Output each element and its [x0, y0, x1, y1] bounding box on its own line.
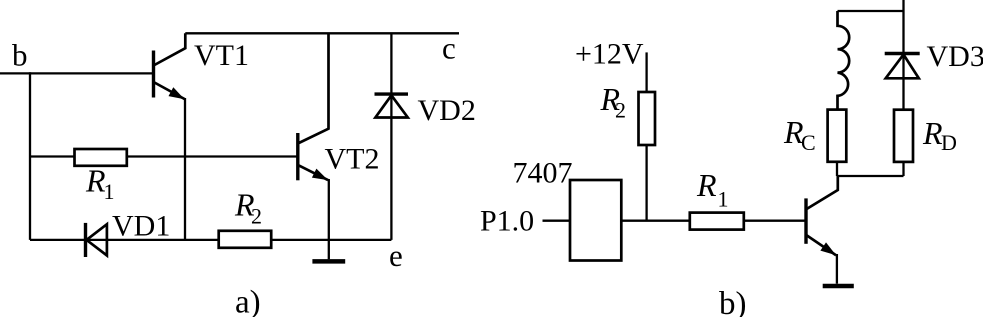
wire collector node row	[838, 175, 904, 177]
wire bottom rail	[30, 239, 219, 241]
wire +12V down	[645, 52, 647, 92]
wire bottom rail right	[271, 239, 391, 241]
transistor Q	[806, 176, 838, 255]
svg-text:1: 1	[718, 187, 729, 212]
buffer 7407 box	[570, 180, 621, 261]
svg-text:a): a)	[235, 285, 261, 317]
R2b label	[600, 81, 627, 123]
svg-text:P1.0: P1.0	[480, 205, 534, 238]
R1 label	[85, 163, 115, 205]
resistor RC	[828, 110, 847, 162]
svg-text:b): b)	[719, 286, 747, 317]
transistor VT2	[298, 33, 329, 180]
wire top rail c	[185, 32, 459, 34]
svg-text:+12V: +12V	[575, 38, 644, 71]
svg-text:2: 2	[251, 204, 262, 229]
wire R1 row left	[30, 155, 75, 157]
svg-text:R: R	[922, 115, 943, 151]
svg-text:7407: 7407	[513, 157, 573, 190]
wire top stub	[902, 0, 904, 11]
wire R2b down	[645, 145, 647, 221]
ground circuit a	[312, 259, 345, 264]
wire RC down	[836, 162, 838, 176]
wire R1b to base	[744, 220, 806, 222]
wire P1.0 input	[543, 220, 571, 222]
wire top rail b	[838, 10, 904, 12]
transistor VT1	[154, 33, 186, 99]
diode VD2	[375, 33, 409, 240]
wire VT1 emitter vertical	[184, 98, 186, 240]
wire R1 row right	[127, 155, 298, 157]
resistor R2b	[639, 92, 656, 145]
R1b label	[696, 167, 729, 212]
wire base VT1	[0, 72, 154, 74]
R2 label	[234, 187, 262, 229]
RC label	[783, 114, 816, 155]
svg-text:R: R	[696, 167, 717, 203]
svg-text:VT2: VT2	[325, 142, 380, 175]
diode VD3	[885, 11, 920, 110]
resistor RD	[894, 110, 913, 162]
resistor R1	[75, 149, 127, 166]
wire VT2 emitter vertical	[328, 179, 330, 259]
svg-text:1: 1	[104, 179, 115, 204]
wire RD down	[902, 162, 904, 176]
svg-text:2: 2	[615, 98, 626, 123]
resistor R2	[219, 231, 272, 248]
svg-text:C: C	[801, 130, 816, 155]
svg-text:VD2: VD2	[418, 94, 476, 127]
resistor R1b	[690, 213, 744, 230]
svg-text:VD1: VD1	[112, 209, 170, 242]
svg-text:VD3: VD3	[927, 40, 983, 73]
wire emitter down	[836, 254, 838, 284]
svg-text:c: c	[442, 30, 456, 65]
inductor L	[838, 11, 850, 110]
svg-text:VT1: VT1	[194, 39, 249, 72]
svg-text:b: b	[12, 38, 28, 73]
diode VD1	[86, 223, 107, 257]
RD label	[922, 115, 957, 155]
svg-text:e: e	[389, 238, 403, 273]
ground circuit b	[823, 284, 854, 289]
svg-text:D: D	[941, 130, 957, 155]
wire left vertical	[29, 72, 31, 240]
wire 7407 output	[621, 220, 690, 222]
